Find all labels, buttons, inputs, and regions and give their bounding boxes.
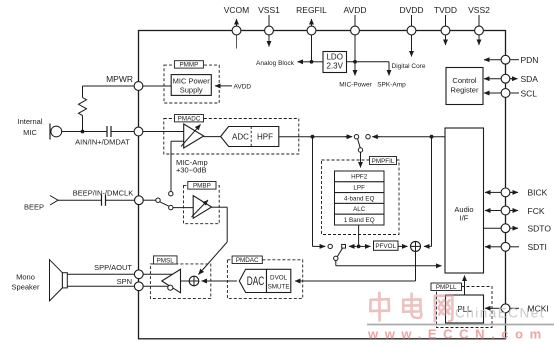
wire arrow into right contact from Audio IF xyxy=(372,136,380,138)
wire bypass to contact arrow xyxy=(313,245,326,247)
switch contact record left xyxy=(354,135,358,139)
svg-text:4-band EQ: 4-band EQ xyxy=(344,195,375,202)
svg-text:ALC: ALC xyxy=(353,206,366,213)
wire filter output down xyxy=(358,225,360,246)
svg-text:MIC-Power: MIC-Power xyxy=(339,82,372,89)
svg-text:BICK: BICK xyxy=(528,188,548,198)
label PMPFIL xyxy=(370,157,397,165)
PMADC dashed box xyxy=(164,119,299,155)
summer speaker mix xyxy=(189,276,199,286)
svg-text:Speaker: Speaker xyxy=(12,283,40,292)
svg-text:VCOM: VCOM xyxy=(224,5,250,15)
pin DVDD xyxy=(399,5,423,35)
svg-text:PMPFIL: PMPFIL xyxy=(372,158,395,165)
svg-text:I/F: I/F xyxy=(460,214,469,223)
block DVOL SMUTE xyxy=(267,269,291,292)
pin VCOM xyxy=(224,5,250,35)
block MIC Power Supply xyxy=(171,75,211,96)
pin SPP/AOUT xyxy=(94,263,143,279)
wire SPP to speaker xyxy=(67,273,134,275)
svg-text:Supply: Supply xyxy=(180,86,203,95)
wire PFVOL to summer arrow xyxy=(398,245,408,247)
switch contact beep input xyxy=(156,198,160,202)
chip outline box xyxy=(139,31,506,339)
wire SPN to speaker xyxy=(67,285,134,287)
switch contact beep mic xyxy=(169,192,173,196)
svg-text:REGFIL: REGFIL xyxy=(296,5,327,15)
svg-text:SDTO: SDTO xyxy=(528,224,552,234)
wire TVDD stub down arrow xyxy=(445,15,447,45)
wire resistor to mic node xyxy=(82,116,84,132)
summer digital mix xyxy=(411,241,421,251)
wire switch to beep amp xyxy=(173,207,193,209)
block DAC xyxy=(239,269,266,292)
svg-text:HPF: HPF xyxy=(257,133,273,142)
svg-text:LPF: LPF xyxy=(353,185,365,192)
svg-text:SCL: SCL xyxy=(521,88,538,98)
svg-text:www.ECCN.com: www.ECCN.com xyxy=(367,327,548,342)
wire MIC-Amp inverting input to beep switch xyxy=(171,141,184,191)
svg-text:Register: Register xyxy=(451,86,479,95)
svg-text:SPK-Amp: SPK-Amp xyxy=(377,82,406,89)
wire SPP inside xyxy=(143,273,172,275)
wire REGFIL stub with up arrow and line to LDO node xyxy=(311,19,313,62)
pin AIN/IN+/DMDAT xyxy=(75,127,143,146)
label PMADC xyxy=(175,115,204,123)
PMPFIL dashed box xyxy=(322,160,400,235)
svg-text:PDN: PDN xyxy=(521,55,539,65)
block PLL xyxy=(446,295,484,323)
svg-text:PMPLL: PMPLL xyxy=(436,284,457,291)
block ADC HPF xyxy=(221,127,279,147)
watermark character 中 xyxy=(370,293,389,321)
wire LDO to AVDD node xyxy=(347,61,390,63)
resistor mic bias xyxy=(79,98,87,116)
svg-text:ADC: ADC xyxy=(232,133,249,142)
pin FCK xyxy=(485,206,545,216)
svg-text:AVDD: AVDD xyxy=(234,84,252,91)
wire DAC to summer arrow xyxy=(202,280,238,282)
svg-text:MIC Power: MIC Power xyxy=(173,77,211,86)
filter block ALC xyxy=(335,203,385,214)
pin VSS1 xyxy=(258,5,280,35)
wire MPWR to resistor and MIC Power Supply xyxy=(83,86,172,98)
wire beep cap to pin xyxy=(106,199,135,201)
node REGFIL-LDO junction xyxy=(310,60,314,64)
svg-text:BEEP/IN-/DMCLK: BEEP/IN-/DMCLK xyxy=(73,189,133,198)
wire AIN to MIC-Amp xyxy=(143,131,184,133)
watermark rule line xyxy=(367,324,554,326)
wire MIC-Power arrow xyxy=(339,62,372,89)
svg-text:Mono: Mono xyxy=(16,273,35,282)
label PMPLL xyxy=(431,283,462,291)
svg-text:1 Band EQ: 1 Band EQ xyxy=(344,217,375,224)
wire HPF node bypass down xyxy=(312,137,314,247)
wire HPF output bus xyxy=(279,136,351,138)
svg-text:VSS1: VSS1 xyxy=(258,5,280,15)
svg-text:MPWR: MPWR xyxy=(106,74,133,84)
op-amp speaker amp xyxy=(162,269,181,293)
svg-text:AVDD: AVDD xyxy=(344,5,367,15)
svg-text:PMSL: PMSL xyxy=(157,257,175,264)
node mic junction xyxy=(81,130,85,134)
wire Audio IF to switch xyxy=(378,136,445,138)
op-amp MIC-Amp xyxy=(176,124,208,175)
pin SDTO xyxy=(484,224,552,234)
filter block 1 Band EQ xyxy=(335,214,385,225)
svg-text:BEEP: BEEP xyxy=(24,203,44,212)
wire SPN inside xyxy=(143,285,168,287)
svg-text:PMBP: PMBP xyxy=(193,183,211,190)
svg-text:PFVOL: PFVOL xyxy=(375,243,396,250)
svg-text:Internal: Internal xyxy=(17,117,42,126)
pin SPN xyxy=(117,277,144,291)
svg-text:+30−0dB: +30−0dB xyxy=(176,166,206,175)
wire BEEP pin to switch xyxy=(143,199,156,201)
filter block HPF2 xyxy=(335,171,385,182)
svg-text:MIC: MIC xyxy=(23,128,37,137)
watermark character 网 xyxy=(435,296,453,322)
wire top stub VCOM with up arrow xyxy=(236,19,238,49)
pin MPWR xyxy=(106,74,143,91)
svg-text:AIN/IN+/DMDAT: AIN/IN+/DMDAT xyxy=(75,138,130,147)
svg-text:PMMP: PMMP xyxy=(179,62,198,69)
PMBP dashed box xyxy=(184,185,220,223)
wire beep amp output xyxy=(199,207,228,274)
switch contact play common xyxy=(334,256,338,260)
svg-text:Analog Block: Analog Block xyxy=(256,60,295,67)
pin PDN xyxy=(484,55,538,65)
node filter out junction xyxy=(357,245,361,249)
wire switch to HPF2 arrow xyxy=(360,152,362,167)
wire DVDD stub down arrow Digital Core xyxy=(392,15,426,70)
PMPLL dashed box xyxy=(437,287,493,328)
svg-text:SMUTE: SMUTE xyxy=(268,283,290,290)
filter block LPF xyxy=(335,182,385,193)
op-amp beep amp xyxy=(192,196,212,219)
svg-text:SPP/AOUT: SPP/AOUT xyxy=(94,263,132,272)
svg-text:SDA: SDA xyxy=(521,74,539,84)
PMSL dashed box xyxy=(150,264,210,299)
speaker Mono Speaker xyxy=(12,260,68,301)
node HPF output junction xyxy=(311,135,315,139)
register block U-CTRL Control Register xyxy=(446,68,483,105)
wire Analog Block arrow xyxy=(256,60,311,67)
wire MIC-Amp to ADC xyxy=(204,136,221,138)
pin BEEP/IN-/DMCLK xyxy=(73,189,144,205)
wire VSS1 stub down arrow xyxy=(268,15,270,47)
switch contact record right xyxy=(366,135,370,139)
wire VSS2 stub down arrow xyxy=(478,15,480,45)
svg-text:PMADC: PMADC xyxy=(178,115,201,122)
wire SPK-Amp arrow xyxy=(377,62,406,89)
pin MCKI xyxy=(485,304,549,314)
wire mic to capacitor xyxy=(62,131,107,133)
svg-text:PMDAC: PMDAC xyxy=(236,257,259,264)
wire node to LDO xyxy=(312,61,324,63)
switch contact play left xyxy=(328,244,332,248)
svg-text:SPN: SPN xyxy=(117,277,132,286)
svg-text:TVDD: TVDD xyxy=(434,5,457,15)
pin TVDD xyxy=(434,5,457,35)
label PMBP xyxy=(188,182,216,190)
regulator LDO 2.3V xyxy=(323,52,347,73)
wire node to PFVOL arrow xyxy=(359,245,371,247)
switch contact record common xyxy=(358,148,362,152)
svg-text:DAC: DAC xyxy=(247,276,265,288)
node DAC-path junction xyxy=(430,135,434,139)
node AVDD junction xyxy=(353,60,357,64)
label PMSL xyxy=(154,256,178,264)
pin BICK xyxy=(485,188,548,198)
svg-text:Control: Control xyxy=(452,76,477,85)
svg-text:2.3V: 2.3V xyxy=(326,62,343,71)
microphone Internal MIC xyxy=(17,117,61,140)
label PMMP xyxy=(174,61,203,69)
svg-text:ChinaECNet: ChinaECNet xyxy=(455,306,545,321)
svg-text:SDTI: SDTI xyxy=(528,242,547,252)
pin SCL xyxy=(484,88,537,98)
svg-text:VSS2: VSS2 xyxy=(468,5,490,15)
wire node to pivot arrow xyxy=(349,245,357,247)
capacitor beep input xyxy=(102,195,106,206)
PMDAC dashed box xyxy=(227,260,302,299)
wire capacitor to AIN pin xyxy=(111,131,134,133)
pin SDTI xyxy=(485,242,547,252)
svg-text:DVDD: DVDD xyxy=(399,5,423,15)
svg-text:Digital Core: Digital Core xyxy=(392,63,426,70)
mic power supply dashed PMMP box xyxy=(164,65,219,103)
switch lever record xyxy=(358,139,361,148)
switch lever beep xyxy=(160,202,169,206)
filter block 4-band EQ xyxy=(335,193,385,204)
pin AVDD xyxy=(344,5,367,35)
wire DAC-path node down to summer arrow xyxy=(424,137,432,247)
pin REGFIL xyxy=(296,5,327,35)
capacitor mic input xyxy=(107,126,111,137)
wire AVDD stub down to node xyxy=(354,15,356,62)
wire AVDD into MIC Power Supply xyxy=(215,84,251,91)
svg-text:HPF2: HPF2 xyxy=(351,174,368,181)
switch contact beep common xyxy=(169,205,173,209)
connector BEEP xyxy=(24,196,102,212)
wire summer down to DVOL path xyxy=(295,251,416,281)
pin SDA xyxy=(484,74,538,84)
switch lever play xyxy=(338,248,343,256)
pin VSS2 xyxy=(468,5,490,35)
svg-text:DVOL: DVOL xyxy=(270,274,288,281)
block PFVOL xyxy=(374,241,399,250)
label PMDAC xyxy=(232,256,262,264)
wire PLL to Audio IF arrow xyxy=(464,276,466,296)
wire summer to speaker amp xyxy=(181,280,190,282)
block Audio I/F xyxy=(445,128,484,273)
wire play common to Audio IF arrow xyxy=(336,261,442,266)
svg-text:FCK: FCK xyxy=(528,206,545,216)
wire arrow into record switch xyxy=(345,136,352,138)
svg-text:LDO: LDO xyxy=(326,53,342,62)
switch pivot play xyxy=(342,245,346,249)
watermark character 电 xyxy=(403,294,421,318)
